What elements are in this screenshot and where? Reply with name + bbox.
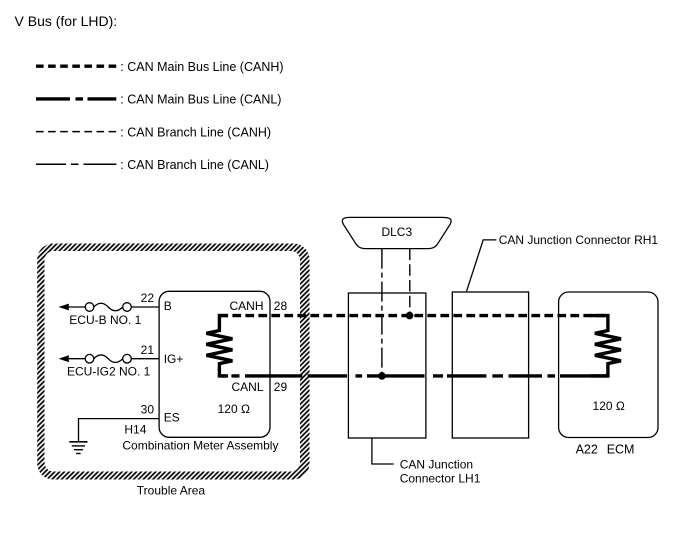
svg-text:CANL: CANL <box>231 380 263 394</box>
wire ECU-IG2 <box>68 358 159 360</box>
arrow ECU-IG2 <box>59 355 69 362</box>
RH1 leader wire <box>467 240 497 291</box>
svg-text:CAN Junction Connector RH1: CAN Junction Connector RH1 <box>499 233 659 247</box>
svg-text:120 Ω: 120 Ω <box>593 399 625 413</box>
svg-text:22: 22 <box>141 291 155 305</box>
svg-text:21: 21 <box>141 343 155 357</box>
svg-text:Trouble Area: Trouble Area <box>137 484 206 498</box>
svg-text:DLC3: DLC3 <box>381 225 412 239</box>
CAN junction connector RH1 box <box>452 292 528 438</box>
fuse ECU-IG2 NO. 1 <box>85 354 131 363</box>
legend line CAN Main Bus Line (CANH) <box>36 64 116 67</box>
svg-text:29: 29 <box>274 380 288 394</box>
trouble area hatched border <box>37 244 309 480</box>
svg-text:: CAN Branch Line (CANH): : CAN Branch Line (CANH) <box>120 125 271 139</box>
svg-text:A22: A22 <box>576 443 598 457</box>
legend line CAN Main Bus Line (CANL) <box>36 97 116 100</box>
svg-text:: CAN Main Bus Line (CANH): : CAN Main Bus Line (CANH) <box>120 60 283 74</box>
CAN junction connector LH1 box <box>348 293 426 438</box>
svg-text:CANH: CANH <box>229 299 263 313</box>
svg-text:ECM: ECM <box>607 443 635 457</box>
CANL main bus line <box>219 374 608 377</box>
svg-text:V Bus (for LHD):: V Bus (for LHD): <box>15 13 118 29</box>
resistor 120 ohm meter <box>206 316 232 376</box>
legend line CAN Branch Line (CANH) <box>36 131 116 133</box>
arrow ECU-B <box>59 304 69 311</box>
svg-text:H14: H14 <box>124 422 146 436</box>
legend line CAN Branch Line (CANL) <box>36 163 116 165</box>
svg-text:ECU-IG2 NO. 1: ECU-IG2 NO. 1 <box>67 364 151 378</box>
svg-text:ES: ES <box>164 411 180 425</box>
combination meter assembly box <box>159 291 270 437</box>
svg-text:Combination Meter Assembly: Combination Meter Assembly <box>122 439 278 453</box>
svg-text:30: 30 <box>141 403 155 417</box>
svg-text:CAN Junction: CAN Junction <box>400 457 473 471</box>
svg-text:B: B <box>164 299 172 313</box>
svg-text:: CAN Branch Line (CANL): : CAN Branch Line (CANL) <box>120 158 269 172</box>
CANL branch line DLC3 <box>381 249 383 376</box>
svg-text:: CAN Main Bus Line (CANL): : CAN Main Bus Line (CANL) <box>120 93 281 107</box>
wire ES to ground <box>79 419 160 442</box>
svg-text:120 Ω: 120 Ω <box>218 402 250 416</box>
fuse ECU-B NO. 1 <box>85 303 131 312</box>
svg-text:Connector LH1: Connector LH1 <box>400 471 481 485</box>
LH1 leader wire <box>372 438 394 464</box>
svg-text:28: 28 <box>274 299 288 313</box>
CANH branch line DLC3 <box>409 249 411 316</box>
resistor 120 ohm ECM <box>590 316 621 376</box>
svg-text:IG+: IG+ <box>164 352 184 366</box>
junction dot CANL <box>378 372 386 380</box>
ground <box>69 442 87 454</box>
CANH main bus line <box>219 314 608 317</box>
connector DLC3 <box>342 217 451 248</box>
wire ECU-B <box>68 306 159 308</box>
svg-text:ECU-B NO. 1: ECU-B NO. 1 <box>69 313 141 327</box>
ECM box <box>559 292 658 438</box>
junction dot CANH <box>406 312 414 320</box>
